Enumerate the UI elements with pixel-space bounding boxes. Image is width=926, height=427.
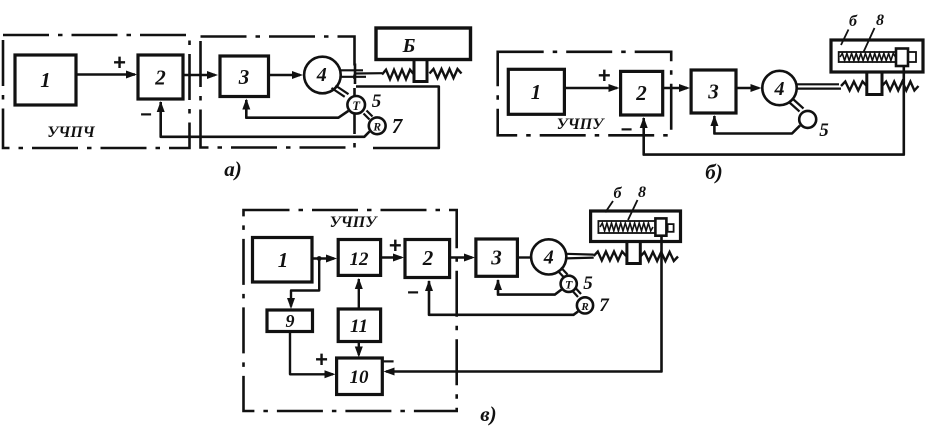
arrowhead into 3 (a) [207,71,218,79]
block 1 (a) [15,55,76,105]
svg-text:Т: Т [565,278,573,292]
position feedback wire (a) [161,102,370,137]
svg-text:б: б [614,185,623,202]
svg-text:б): б) [705,160,722,184]
svg-text:9: 9 [286,311,295,331]
wire 1-9 (v) [291,259,319,307]
leadscrew left (a) [382,70,414,80]
svg-text:4: 4 [316,64,327,86]
wire 11-12 (v) [358,279,360,309]
wire 3-4 (b) [736,87,759,89]
block 12 (v) [338,240,380,276]
shaft double line (a) [341,69,364,71]
machine frame line (a) [356,87,439,149]
arrowhead into 12 bottom (v) [355,278,363,289]
speed feedback wire (b) [714,116,800,134]
enclosure drive (a) [201,37,355,148]
arrowhead into 10 right (v) [384,368,395,376]
wire 3-4 (a) [269,74,301,76]
leader b (b) [841,30,849,46]
svg-text:+: + [113,50,126,75]
svg-text:1: 1 [278,248,289,272]
wire 11-10 (v) [358,342,360,356]
arrowhead into 12 (v) [326,255,337,263]
wire 3-4 (v) [517,256,531,258]
leadscrew right (b) [882,82,919,91]
arrowhead into 2 bottom (v) [425,280,433,291]
motor 4 (a) [304,57,341,94]
arrowhead into 4 (b) [751,84,762,92]
arrowhead into 2 (b) [609,84,620,92]
svg-text:10: 10 [350,367,370,388]
svg-text:4: 4 [543,247,554,269]
svg-text:11: 11 [350,316,368,337]
svg-text:а): а) [224,157,242,181]
svg-text:7: 7 [392,114,404,138]
arrowhead into 3 bottom (b) [710,115,718,126]
position feedback wire (b) [644,66,904,155]
svg-text:б: б [849,13,858,30]
shaft 4-5 (b) [790,103,800,112]
svg-text:12: 12 [350,249,370,270]
arrowhead into 3 (v) [464,254,475,262]
linear scale housing (b) [831,40,923,72]
svg-text:−: − [140,104,152,126]
nut (a) [414,60,427,82]
leadscrew left (v) [594,252,626,261]
svg-text:4: 4 [774,78,785,100]
arrowhead into 2 bottom (b) [640,117,648,128]
arrowhead into 10 top (v) [355,347,363,358]
block 2 (v) [405,240,450,278]
arrowhead into 4 (a) [292,71,303,79]
nut (b) [867,72,882,95]
svg-text:−: − [407,282,419,304]
wire 2-3 (a) [183,74,215,76]
svg-text:+: + [315,347,328,372]
reading head 8 (b) [896,49,908,67]
leader b (v) [605,201,613,212]
shaft 4-T (v) [558,271,565,278]
svg-text:8: 8 [638,184,646,201]
svg-text:5: 5 [583,273,593,294]
svg-text:УЧПУ: УЧПУ [557,116,606,133]
wire 1-2 (b) [564,87,617,89]
leadscrew right (a) [430,69,462,78]
svg-text:2: 2 [422,246,434,270]
position feedback wire (v) [386,236,662,372]
svg-text:1: 1 [40,68,51,92]
enclosure УЧПУ (a) [3,35,190,148]
wire 1-2 (a) [76,73,135,75]
svg-text:5: 5 [372,91,382,112]
arrowhead into 3 bottom (v) [494,279,502,290]
svg-text:R: R [372,122,381,134]
block 2 (b) [621,71,663,115]
block 3 (v) [476,239,518,276]
svg-text:−: − [621,119,633,141]
svg-text:+: + [389,233,402,258]
svg-text:Б: Б [402,35,416,57]
block 2 (a) [138,55,183,99]
head mark (v) [668,224,674,232]
wire 2-3 (v) [450,256,472,258]
coupling tick (a) [354,64,357,85]
speed feedback wire (v) [498,280,562,295]
arrowhead into 2 (v) [393,254,404,262]
wire 1-12 (v) [312,257,334,259]
svg-text:в): в) [480,402,496,426]
position fb motor wire (v) [429,281,578,315]
svg-text:R: R [580,301,588,313]
wire 2-3 (b) [663,87,687,89]
block 1 (v) [253,238,313,283]
motor 4 (v) [531,239,566,274]
enclosure УЧПУ (v) [244,210,457,411]
sensor 5 (b) [799,111,816,128]
arrowhead into 2 bottom (a) [157,101,165,112]
svg-text:1: 1 [531,80,542,104]
wire 9-10 (v) [290,332,333,375]
enclosure УЧПУ (b) [498,52,672,136]
block 3 (b) [691,70,736,113]
arrowhead into 2 (a) [126,71,137,79]
svg-text:УЧПЧ: УЧПЧ [47,124,96,141]
arrowhead into 10 left (v) [325,370,336,378]
leader 8 (b) [864,28,875,52]
scale bar (b) [839,52,916,62]
arrowhead into 9 (v) [287,298,295,309]
nut (v) [627,242,640,264]
wire 12-2 (v) [381,256,402,258]
svg-text:2: 2 [635,81,647,105]
shaft double line (b) [797,83,840,85]
block 11 (v) [338,309,380,342]
svg-text:2: 2 [154,66,166,90]
svg-text:Т: Т [352,99,361,113]
resolver R (v) [577,297,593,313]
svg-text:3: 3 [490,246,502,270]
tachogenerator T (v) [561,276,577,292]
linear scale housing (v) [591,211,681,242]
junction dot (v) [317,256,322,261]
shaft double line (v) [566,253,594,256]
block 3 (a) [220,56,269,97]
svg-text:3: 3 [238,65,250,89]
svg-text:3: 3 [707,80,719,104]
svg-text:−: − [383,351,395,373]
scale bar (v) [598,221,656,233]
resolver R (a) [369,117,386,134]
leadscrew right (v) [640,252,678,261]
motor 4 (b) [762,71,796,105]
tachogenerator T (a) [347,96,365,114]
arrowhead into 3 (b) [679,84,690,92]
shaft 4-T (a) [332,88,345,97]
reading head 8 (v) [655,218,666,235]
arrowhead into 3 bottom (a) [242,99,250,110]
speed feedback wire (a) [246,100,348,118]
table B (a) [376,28,471,60]
svg-text:+: + [598,63,611,88]
block 10 (v) [337,358,383,395]
svg-text:5: 5 [819,120,829,141]
svg-text:7: 7 [599,295,610,316]
svg-text:8: 8 [876,12,884,29]
leader 8 (v) [628,200,638,220]
leadscrew left (b) [841,82,867,91]
block 1 (b) [508,69,564,114]
block 9 (v) [267,310,313,332]
shaft T-R (v) [573,292,578,298]
svg-text:УЧПУ: УЧПУ [330,214,379,231]
shaft T-R (a) [364,114,370,120]
